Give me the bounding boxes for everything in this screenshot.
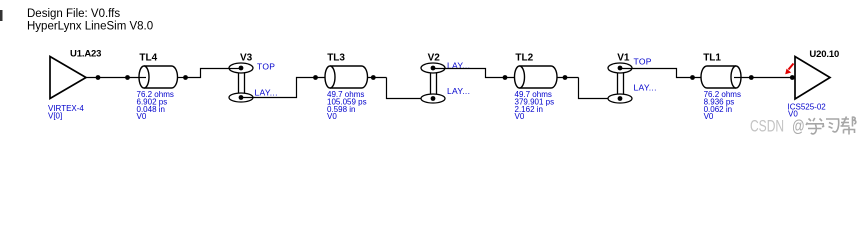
node TL1 input pin dot: [690, 75, 695, 80]
svg-text:U1.A23: U1.A23: [70, 49, 101, 60]
svg-text:TL3: TL3: [327, 52, 345, 63]
header title text: [27, 8, 153, 33]
svg-text:TOP: TOP: [257, 62, 275, 72]
via V1: [608, 63, 632, 103]
svg-text:TL2: TL2: [515, 52, 533, 63]
wire V1 to TL1 (from top pad, step down): [620, 69, 701, 78]
svg-text:V1: V1: [617, 52, 630, 63]
svg-text:@: @: [792, 118, 805, 136]
svg-text:TL4: TL4: [139, 52, 157, 63]
watermark chinese glyph xi: [826, 119, 839, 132]
svg-text:LAY...: LAY...: [634, 83, 657, 93]
transmission line TL4 (cylinder): [139, 66, 178, 88]
receiver U20.10 (buffer triangle): [795, 57, 830, 100]
svg-text:V[0]: V[0]: [48, 112, 62, 121]
node TL3 input pin dot: [313, 75, 318, 80]
svg-text:V0: V0: [788, 109, 798, 118]
watermark CSDN: [750, 118, 805, 136]
transmission line TL2 (cylinder): [515, 66, 558, 88]
node TL1 output pin dot: [749, 75, 754, 80]
wire TL3 to V2 (step down to bottom pad): [387, 78, 434, 99]
svg-text:V3: V3: [240, 52, 253, 63]
svg-text:TL1: TL1: [703, 52, 721, 63]
via V3: [229, 63, 253, 102]
driver U1.A23 (buffer triangle): [50, 57, 86, 99]
node TL2 output pin dot: [563, 75, 568, 80]
left edge clipped glyph artifact: [0, 10, 3, 21]
wire V2 to TL2 (from top pad, step down): [433, 69, 521, 78]
watermark chinese glyph xue: [806, 118, 824, 134]
wire TL1 output to receiver: [741, 77, 795, 79]
svg-text:TOP: TOP: [634, 57, 652, 67]
wire TL2 output: [557, 77, 579, 79]
svg-text:Design File: V0.ffs: Design File: V0.ffs: [27, 8, 120, 20]
wire driver output: [86, 77, 146, 79]
svg-text:V0: V0: [137, 112, 147, 121]
node driver pin dot: [96, 75, 101, 80]
svg-text:LAY...: LAY...: [255, 87, 278, 97]
value label TL3 parameters: [327, 90, 367, 121]
wire TL4 output: [178, 77, 186, 79]
wire TL4 to V3 (step up): [186, 69, 242, 78]
value label TL4 parameters: [137, 90, 174, 121]
svg-text:V0: V0: [515, 112, 525, 121]
node TL3 output pin dot: [371, 75, 376, 80]
value label TL1 parameters: [704, 90, 741, 121]
node TL4 input pin dot: [125, 75, 130, 80]
probe marker (red arrow): [785, 64, 793, 75]
svg-text:V0: V0: [704, 112, 714, 121]
svg-text:U20.10: U20.10: [809, 49, 839, 60]
node TL4 output pin dot: [183, 75, 188, 80]
node receiver pin dot: [790, 75, 795, 80]
node TL2 input pin dot: [503, 75, 508, 80]
value label TL2 parameters: [515, 90, 555, 121]
svg-text:V0: V0: [327, 112, 337, 121]
via V2: [421, 63, 445, 103]
svg-text:HyperLynx LineSim V8.0: HyperLynx LineSim V8.0: [27, 21, 153, 33]
value label VIRTEX-4 V[0]: [48, 104, 84, 121]
svg-text:LAY...: LAY...: [447, 86, 470, 96]
wire TL2 to V1 (step down to bottom pad): [579, 78, 621, 99]
value label ICS525-02 V0: [788, 103, 827, 119]
wire TL3 output: [368, 77, 387, 79]
watermark chinese glyph bang: [841, 117, 856, 135]
svg-text:CSDN: CSDN: [750, 118, 784, 136]
transmission line TL1 (cylinder, mirrored): [701, 66, 741, 88]
wire V3 to TL3 (from bottom pad, step up): [241, 78, 332, 98]
transmission line TL3 (cylinder): [325, 66, 368, 88]
svg-text:V2: V2: [428, 52, 441, 63]
